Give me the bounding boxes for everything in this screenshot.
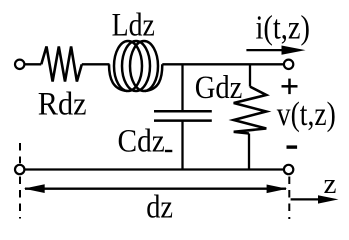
terminal top-right (284, 60, 293, 69)
dash after Cdz (165, 150, 172, 152)
capacitor Cdz lead bottom (181, 121, 183, 170)
terminal bottom-right (284, 165, 293, 174)
terminal bottom-left (15, 165, 24, 174)
svg-text:z: z (324, 169, 337, 200)
plus sign (282, 79, 298, 95)
dz arrow head right (267, 185, 288, 194)
svg-text:Cdz: Cdz (118, 123, 165, 159)
bottom wire (24, 168, 284, 170)
current arrow shaft (246, 49, 284, 51)
terminal top-left (15, 60, 24, 69)
svg-text:dz: dz (146, 190, 173, 226)
svg-text:Rdz: Rdz (38, 86, 87, 122)
wire inductor to terminal top-right (162, 63, 284, 65)
dashed construction line right (288, 177, 290, 220)
conductance Gdz zigzag (234, 87, 267, 134)
conductance Gdz lead bottom (248, 134, 250, 170)
wire top-left to resistor (24, 63, 41, 65)
dz double arrow shaft (25, 188, 286, 190)
svg-text:Ldz: Ldz (112, 8, 155, 44)
conductance Gdz lead top (249, 64, 251, 86)
current arrow head (282, 46, 306, 55)
minus sign (287, 145, 298, 148)
capacitor Cdz plates (154, 110, 212, 113)
svg-text:v(t,z): v(t,z) (277, 96, 336, 133)
dashed construction line left (19, 143, 21, 219)
z axis arrow head (318, 195, 339, 203)
z axis arrow shaft (291, 198, 322, 200)
dz arrow head left (24, 184, 45, 193)
inductor Ldz (109, 41, 162, 91)
wire resistor to inductor (82, 63, 110, 65)
capacitor Cdz lead top (181, 64, 183, 111)
resistor Rdz (41, 47, 82, 82)
svg-text:i(t,z): i(t,z) (256, 9, 311, 46)
svg-text:Gdz: Gdz (195, 70, 243, 106)
